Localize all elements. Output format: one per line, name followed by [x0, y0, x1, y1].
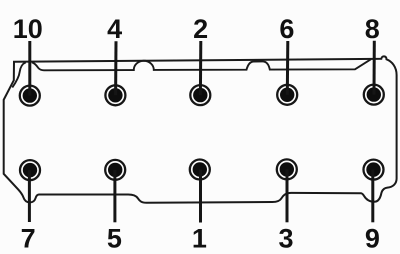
svg-text:1: 1 [192, 224, 207, 254]
svg-text:3: 3 [278, 224, 293, 254]
svg-text:8: 8 [365, 14, 380, 44]
svg-text:9: 9 [365, 224, 380, 254]
svg-text:2: 2 [193, 14, 208, 44]
svg-text:10: 10 [13, 14, 43, 44]
svg-text:7: 7 [21, 223, 36, 253]
svg-text:5: 5 [107, 224, 122, 254]
svg-text:6: 6 [279, 14, 294, 44]
svg-text:4: 4 [107, 14, 122, 44]
